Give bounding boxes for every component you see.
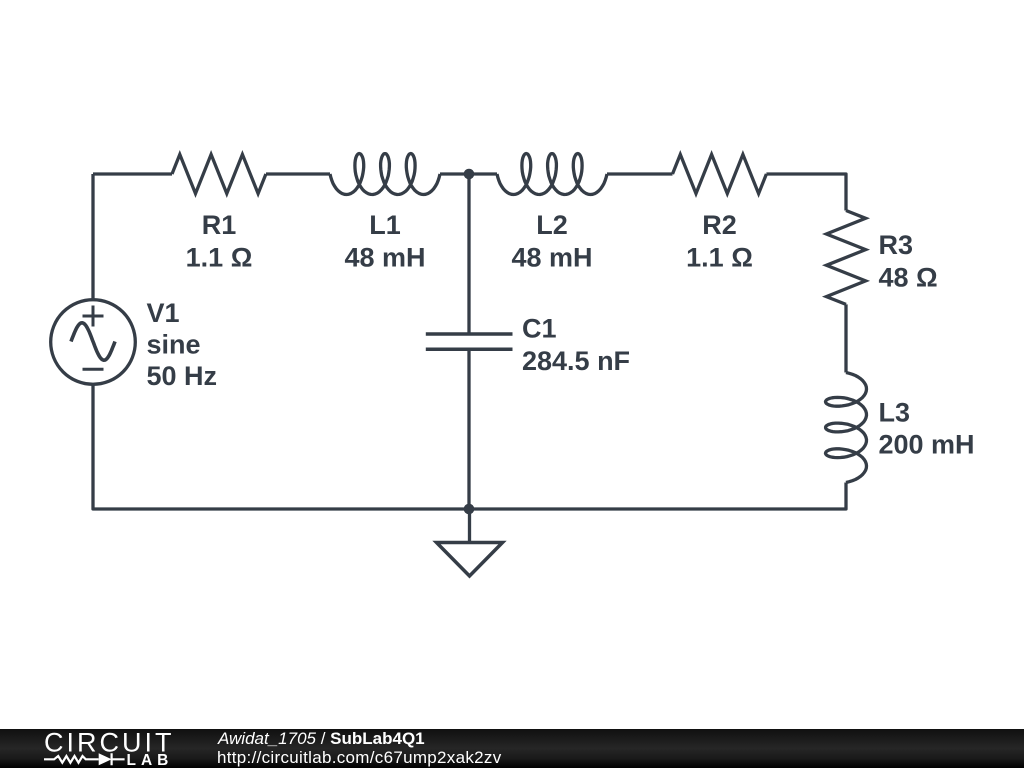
svg-text:L1: L1 (369, 210, 401, 240)
svg-text:http://circuitlab.com/c67ump2x: http://circuitlab.com/c67ump2xak2zv (217, 748, 502, 767)
svg-text:L3: L3 (879, 398, 911, 428)
svg-text:Awidat_1705 / SubLab4Q1: Awidat_1705 / SubLab4Q1 (217, 729, 425, 748)
svg-text:LAB: LAB (127, 752, 174, 768)
svg-text:284.5 nF: 284.5 nF (522, 346, 630, 376)
svg-text:R1: R1 (202, 210, 237, 240)
svg-text:sine: sine (147, 330, 201, 360)
svg-text:C1: C1 (522, 314, 557, 344)
svg-text:1.1 Ω: 1.1 Ω (686, 243, 753, 273)
svg-text:48 mH: 48 mH (344, 243, 425, 273)
svg-text:R3: R3 (879, 230, 914, 260)
svg-text:L2: L2 (536, 210, 568, 240)
svg-text:1.1 Ω: 1.1 Ω (186, 243, 253, 273)
svg-text:50 Hz: 50 Hz (147, 361, 218, 391)
svg-text:200 mH: 200 mH (879, 430, 975, 460)
svg-text:48 Ω: 48 Ω (879, 263, 938, 293)
svg-text:R2: R2 (702, 210, 737, 240)
svg-text:V1: V1 (147, 298, 180, 328)
svg-text:48 mH: 48 mH (511, 243, 592, 273)
